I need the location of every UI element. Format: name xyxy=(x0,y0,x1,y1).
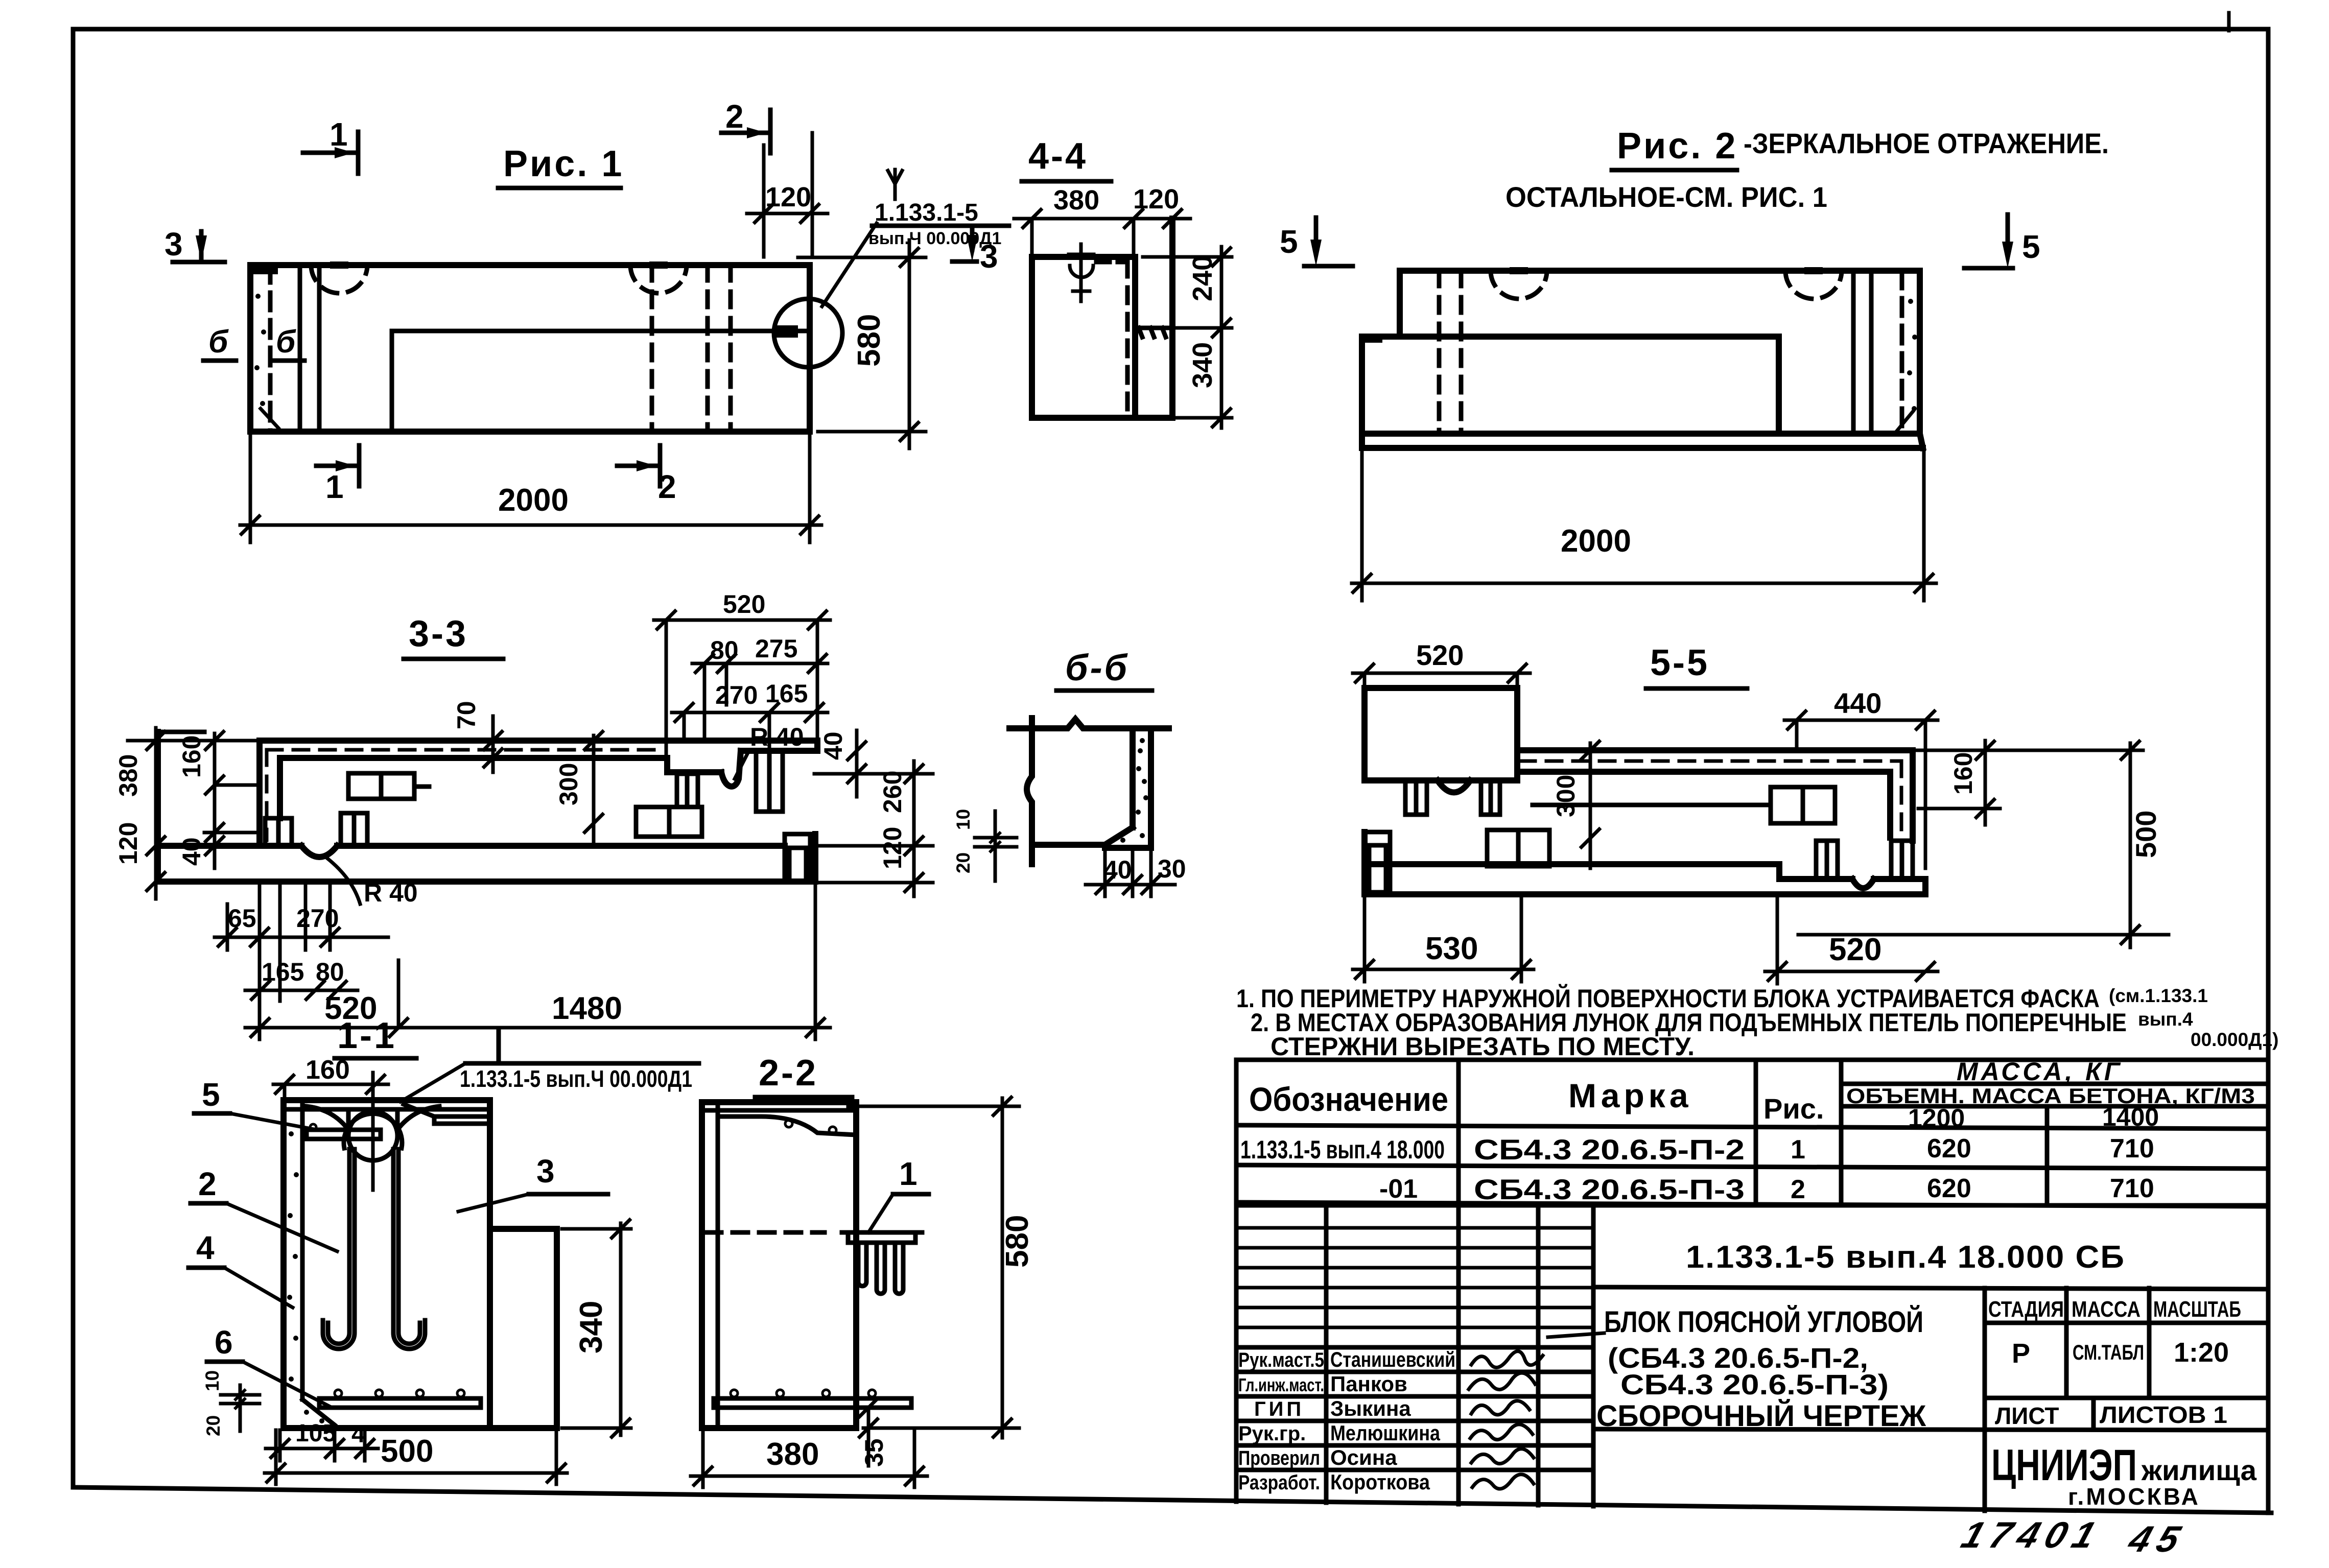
section 3-3 shear key pair left xyxy=(265,818,292,846)
section mark 3 right of Fig.1 label xyxy=(952,226,998,275)
svg-text:1: 1 xyxy=(899,1155,918,1192)
svg-text:МАСШТАБ: МАСШТАБ xyxy=(2153,1297,2241,1322)
Fig.1 detail circle callout xyxy=(774,299,842,367)
section 3-3 bottom slab xyxy=(158,732,815,882)
svg-text:1: 1 xyxy=(330,116,348,153)
section 3-3 dimension 520 bottom xyxy=(245,960,409,1038)
svg-text:120: 120 xyxy=(765,182,811,212)
svg-text:580: 580 xyxy=(852,314,887,367)
svg-text:2: 2 xyxy=(725,98,744,135)
section 5-5 bottom slab xyxy=(1365,832,1925,894)
svg-text:Осина: Осина xyxy=(1330,1445,1397,1469)
svg-text:1.133.1-5 вып.4 18.000: 1.133.1-5 вып.4 18.000 xyxy=(1240,1135,1445,1164)
svg-text:ОБЪЕМН. МАССА БЕТОНА, КГ/М3: ОБЪЕМН. МАССА БЕТОНА, КГ/М3 xyxy=(1846,1084,2255,1108)
section 3-3 dimensions 380 120 left xyxy=(114,728,260,899)
section 4-4 dimensions 380 120 xyxy=(1014,184,1190,257)
Fig.2 right end strip xyxy=(1853,271,1917,434)
section 3-3 dimension 70 xyxy=(452,701,503,772)
svg-text:5-5: 5-5 xyxy=(1650,643,1709,683)
svg-text:340: 340 xyxy=(1187,342,1218,388)
title block lower grid xyxy=(1236,1205,2268,1511)
svg-text:1200: 1200 xyxy=(1908,1104,1965,1132)
section 1-1 dimensions 20 10 left xyxy=(202,1370,260,1436)
section 2-2 outline xyxy=(702,1102,856,1428)
svg-text:СТАДИЯ: СТАДИЯ xyxy=(1988,1297,2064,1322)
svg-text:БЛОК ПОЯСНОЙ УГЛОВОЙ: БЛОК ПОЯСНОЙ УГЛОВОЙ xyxy=(1604,1305,1923,1339)
section 1-1 dimension 160 top xyxy=(273,1055,388,1100)
view Fig.1 title xyxy=(498,144,624,188)
svg-text:160: 160 xyxy=(305,1055,350,1085)
section 1-1 lower right block xyxy=(490,1229,557,1428)
title block organization xyxy=(1991,1441,2257,1510)
svg-text:160: 160 xyxy=(1949,752,1978,795)
svg-text:МАССА: МАССА xyxy=(2072,1297,2140,1322)
svg-text:520: 520 xyxy=(723,590,765,619)
svg-text:ГИП: ГИП xyxy=(1254,1398,1304,1420)
dimension 2000 bottom of Fig.2 xyxy=(1352,448,1936,601)
svg-text:СБ4.3 20.6.5-П-3: СБ4.3 20.6.5-П-3 xyxy=(1474,1173,1745,1205)
svg-text:10: 10 xyxy=(953,809,974,830)
svg-text:300: 300 xyxy=(554,763,583,805)
section 1-1 hairpin bar right xyxy=(393,1149,425,1349)
svg-text:580: 580 xyxy=(1000,1215,1035,1268)
svg-text:ЛИСТОВ 1: ЛИСТОВ 1 xyxy=(2100,1401,2227,1428)
svg-text:2-2: 2-2 xyxy=(759,1053,818,1094)
svg-text:530: 530 xyxy=(1425,931,1478,966)
section 5-5 dimension 160 xyxy=(1916,740,2143,825)
svg-text:00.000Д1): 00.000Д1) xyxy=(2191,1029,2278,1050)
section 5-5 dimension 520 top xyxy=(1353,639,1530,688)
section 1-1 lifting loop xyxy=(307,1073,439,1190)
section 1-1 title xyxy=(335,1015,416,1058)
svg-text:Рис.: Рис. xyxy=(1763,1092,1824,1125)
svg-text:-01: -01 xyxy=(1379,1174,1418,1204)
section 5-5 horizontal key lower xyxy=(1487,830,1549,866)
section 3-3 end key right xyxy=(785,834,810,882)
section 5-5 title xyxy=(1646,643,1747,688)
section 5-5 dimension 530 bottom xyxy=(1353,894,1534,982)
svg-text:5: 5 xyxy=(202,1076,220,1113)
svg-text:ОСТАЛЬНОЕ-СМ. РИС. 1: ОСТАЛЬНОЕ-СМ. РИС. 1 xyxy=(1505,181,1827,213)
svg-text:(см.1.133.1: (см.1.133.1 xyxy=(2109,985,2208,1006)
svg-text:80: 80 xyxy=(316,958,344,986)
svg-text:3: 3 xyxy=(980,238,998,275)
section 5-5 flange slab xyxy=(1517,750,1913,848)
Fig.1 inner recess line xyxy=(392,325,810,432)
svg-text:120: 120 xyxy=(114,822,143,865)
svg-text:2: 2 xyxy=(1791,1175,1805,1204)
handwritten archive number 17401 45 xyxy=(1955,1514,2194,1560)
section 3-3 dimensions 80 275 xyxy=(692,634,828,741)
section 3-3 horizontal key lower xyxy=(636,807,702,837)
section 5-5 dimension 500 xyxy=(1798,740,2169,947)
section 5-5 horizontal key upper xyxy=(1533,787,1835,823)
section 4-4 title xyxy=(1022,136,1111,181)
svg-text:440: 440 xyxy=(1834,687,1881,719)
svg-text:80: 80 xyxy=(710,636,739,664)
svg-text:710: 710 xyxy=(2110,1174,2154,1203)
title block handwritten signatures xyxy=(1469,1333,1604,1489)
detail b-b dimensions 20 10 left xyxy=(953,809,1017,881)
section 1-1 dimension 340 xyxy=(562,1219,631,1438)
svg-text:г.МОСКВА: г.МОСКВА xyxy=(2068,1483,2200,1510)
section 1-1 part callout 4 xyxy=(189,1229,293,1308)
Fig.1 dashed joint lines xyxy=(652,265,731,432)
svg-text:120: 120 xyxy=(878,827,907,869)
section 5-5 shear keys right xyxy=(1816,841,1913,879)
section 5-5 end key left xyxy=(1365,832,1390,892)
section mark 2 above Fig.1 xyxy=(721,98,770,153)
title block name lines xyxy=(1596,1305,1926,1433)
svg-text:620: 620 xyxy=(1927,1134,1971,1163)
svg-text:R 40: R 40 xyxy=(750,723,804,751)
svg-text:270: 270 xyxy=(715,681,758,709)
svg-text:380: 380 xyxy=(114,754,143,797)
view Fig.2 title and remark xyxy=(1505,126,2109,213)
b-b cut letters on Fig.1 xyxy=(203,324,304,361)
svg-text:СБОРОЧНЫЙ ЧЕРТЕЖ: СБОРОЧНЫЙ ЧЕРТЕЖ xyxy=(1596,1399,1926,1433)
section mark 5 right of Fig.2 xyxy=(1964,215,2040,268)
svg-text:1400: 1400 xyxy=(2102,1103,2159,1131)
detail b-b dimensions 40 30 xyxy=(1086,848,1186,896)
section 3-3 dimension 1480 bottom xyxy=(398,882,830,1039)
svg-text:500: 500 xyxy=(2130,811,2162,858)
svg-text:Рис. 2: Рис. 2 xyxy=(1617,126,1737,167)
section 1-1 bottom anchor plate xyxy=(319,1390,481,1408)
svg-text:275: 275 xyxy=(755,634,797,663)
section 3-3 dimensions 160 40 left xyxy=(177,730,260,868)
svg-text:6: 6 xyxy=(215,1324,233,1361)
svg-text:Зыкина: Зыкина xyxy=(1330,1396,1411,1420)
svg-text:Панков: Панков xyxy=(1330,1372,1407,1396)
svg-text:б: б xyxy=(208,324,229,360)
section 2-2 dashed level line xyxy=(706,1230,825,1235)
svg-text:30: 30 xyxy=(1158,854,1186,883)
dimension 580 right of Fig.1 xyxy=(798,240,926,448)
svg-text:500: 500 xyxy=(381,1434,433,1469)
svg-text:Гл.инж.маст.: Гл.инж.маст. xyxy=(1238,1374,1324,1395)
svg-text:1.133.1-5: 1.133.1-5 xyxy=(875,199,978,226)
section 2-2 dimension 35 xyxy=(858,1397,888,1467)
svg-text:3: 3 xyxy=(536,1153,555,1190)
notes text xyxy=(1236,984,2278,1061)
section 2-2 part callout 1 xyxy=(868,1155,929,1232)
section 3-3 dimensions 165 80 bottom xyxy=(245,958,358,1001)
svg-text:65: 65 xyxy=(228,904,256,933)
section 3-3 R40 lower label xyxy=(327,858,418,907)
section 1-1 part callout 5 xyxy=(194,1076,317,1130)
svg-text:б-б: б-б xyxy=(1065,648,1129,688)
svg-text:3-3: 3-3 xyxy=(409,613,468,654)
title block stage mass scale xyxy=(1988,1297,2241,1429)
svg-text:ЛИСТ: ЛИСТ xyxy=(1995,1403,2059,1429)
section 3-3 dimensions 65 270 bottom xyxy=(215,882,388,1039)
Fig.1 lifting pocket dashed arc right xyxy=(630,262,687,293)
svg-text:35: 35 xyxy=(860,1438,888,1467)
svg-text:ЦНИИЭП: ЦНИИЭП xyxy=(1991,1441,2137,1490)
dimension 2000 bottom of Fig.1 xyxy=(240,432,821,542)
svg-text:5: 5 xyxy=(1280,223,1298,260)
title block header texts xyxy=(1249,1057,2255,1132)
svg-text:1.133.1-5 вып.Ч 00.000Д1: 1.133.1-5 вып.Ч 00.000Д1 xyxy=(460,1065,692,1092)
svg-text:20: 20 xyxy=(953,852,974,873)
svg-text:СБ4.3 20.6.5-П-2: СБ4.3 20.6.5-П-2 xyxy=(1474,1133,1745,1166)
svg-text:620: 620 xyxy=(1927,1174,1971,1203)
Fig.1 left end hatched strip xyxy=(254,265,319,432)
svg-text:70: 70 xyxy=(452,701,481,729)
title block grid xyxy=(1236,1060,2268,1206)
svg-text:260: 260 xyxy=(878,771,907,813)
section 1-1 right upper corner detail xyxy=(404,1104,490,1124)
svg-text:40: 40 xyxy=(177,837,206,866)
detail b-b outline xyxy=(1009,718,1169,864)
section 5-5 dimension 300 xyxy=(1551,740,1601,868)
title block row 2 xyxy=(1379,1173,2154,1205)
svg-text:240: 240 xyxy=(1187,255,1218,301)
svg-text:380: 380 xyxy=(1053,185,1099,216)
Fig.1 block outline xyxy=(250,265,810,432)
section 1-1 hairpin bar left xyxy=(323,1149,355,1349)
section 5-5 dimension 440 xyxy=(1784,687,1938,868)
dimension 120 top of Fig.1 xyxy=(747,133,828,257)
section 2-2 dimension 580 xyxy=(848,1096,1035,1438)
section 3-3 flange slab xyxy=(260,741,817,846)
svg-text:2000: 2000 xyxy=(498,483,569,518)
svg-text:Рис. 1: Рис. 1 xyxy=(503,144,624,184)
svg-text:20: 20 xyxy=(203,1415,224,1436)
svg-text:520: 520 xyxy=(1829,932,1881,967)
section 2-2 bottom anchor plate xyxy=(714,1390,911,1408)
svg-text:Станишевский: Станишевский xyxy=(1330,1347,1455,1371)
svg-text:Р: Р xyxy=(2012,1338,2030,1369)
svg-text:1: 1 xyxy=(1791,1135,1805,1165)
svg-text:300: 300 xyxy=(1551,775,1580,817)
section 1-1 concrete dots xyxy=(287,1131,324,1423)
svg-text:520: 520 xyxy=(1416,639,1464,671)
svg-text:4-4: 4-4 xyxy=(1028,136,1088,177)
section 3-3 dimension 520 top xyxy=(654,590,830,772)
section 4-4 outline xyxy=(1032,219,1172,418)
Fig.1 callout label 1.133.1-5 vyp.4 00.000D1 xyxy=(822,170,1009,306)
svg-text:160: 160 xyxy=(177,735,206,778)
svg-text:Мелюшкина: Мелюшкина xyxy=(1330,1421,1441,1445)
section 4-4 lifting loop symbol xyxy=(1069,244,1094,301)
section 2-2 dowel comb detail xyxy=(842,1232,922,1294)
section 3-3 dimension 300 xyxy=(554,730,604,843)
svg-text:Рук.маст.5: Рук.маст.5 xyxy=(1238,1349,1324,1371)
section 2-2 title xyxy=(755,1053,852,1097)
section mark 3 upper left of Fig.1 xyxy=(164,226,225,263)
section 2-2 dimension 380 xyxy=(691,1430,927,1487)
title block row 1 xyxy=(1240,1133,2154,1166)
svg-text:R 40: R 40 xyxy=(364,878,418,907)
svg-text:Обозначение: Обозначение xyxy=(1249,1080,1448,1118)
svg-text:710: 710 xyxy=(2110,1134,2154,1163)
svg-text:2: 2 xyxy=(198,1166,217,1202)
svg-text:Проверил: Проверил xyxy=(1238,1447,1320,1469)
title block signature labels xyxy=(1238,1349,1324,1494)
section 3-3 dimension 40 right xyxy=(819,730,867,797)
section 3-3 title xyxy=(404,613,503,659)
svg-text:Рук.гр.: Рук.гр. xyxy=(1238,1422,1306,1445)
svg-text:380: 380 xyxy=(766,1437,819,1472)
Fig.2 lifting pocket dashed arc right xyxy=(1785,267,1842,299)
section 1-1 callout label xyxy=(401,1031,699,1102)
section 1-1 dimension 500 xyxy=(265,1430,567,1484)
svg-text:340: 340 xyxy=(574,1301,609,1353)
section mark 1 above Fig.1 xyxy=(303,116,358,174)
svg-text:17401: 17401 xyxy=(1957,1514,2108,1556)
section 4-4 dimensions 240 340 xyxy=(1143,247,1232,428)
section 3-3 dimensions 270 165 xyxy=(672,679,828,751)
svg-text:-ЗЕРКАЛЬНОЕ ОТРАЖЕНИЕ.: -ЗЕРКАЛЬНОЕ ОТРАЖЕНИЕ. xyxy=(1744,127,2109,159)
svg-text:Разработ.: Разработ. xyxy=(1238,1471,1320,1494)
section 1-1 part callout 2 xyxy=(191,1166,337,1251)
detail b-b title xyxy=(1056,648,1152,691)
section 3-3 corner block xyxy=(667,741,817,812)
svg-text:5: 5 xyxy=(2022,228,2040,265)
section 5-5 corner block xyxy=(1365,688,1517,815)
section 3-3 dimensions 260 120 right xyxy=(814,761,933,896)
svg-text:165: 165 xyxy=(765,679,808,708)
Fig.2 lifting pocket dashed arc left xyxy=(1491,267,1547,299)
svg-text:Короткова: Короткова xyxy=(1330,1470,1430,1494)
section 3-3 horizontal key upper xyxy=(348,773,429,799)
svg-text:2000: 2000 xyxy=(1561,524,1631,559)
svg-text:СМ.ТАБЛ: СМ.ТАБЛ xyxy=(2073,1340,2144,1364)
svg-text:40: 40 xyxy=(819,731,848,760)
section 1-1 part callout 3 xyxy=(458,1153,608,1211)
svg-text:3: 3 xyxy=(164,226,183,263)
section 1-1 part callout 6 xyxy=(207,1324,331,1407)
svg-text:СБ4.3 20.6.5-П-3): СБ4.3 20.6.5-П-3) xyxy=(1620,1368,1889,1400)
section mark 2 below Fig.1 xyxy=(617,445,676,505)
svg-text:жилища: жилища xyxy=(2141,1454,2257,1486)
section mark 5 right of 4-4 xyxy=(1280,218,1353,266)
svg-text:СТЕРЖНИ ВЫРЕЗАТЬ ПО МЕСТУ.: СТЕРЖНИ ВЫРЕЗАТЬ ПО МЕСТУ. xyxy=(1271,1032,1695,1061)
svg-text:б: б xyxy=(276,324,296,360)
svg-text:1480: 1480 xyxy=(552,991,622,1026)
svg-text:1: 1 xyxy=(325,468,344,505)
title block signature names xyxy=(1330,1347,1455,1494)
svg-text:1:20: 1:20 xyxy=(2174,1337,2229,1368)
svg-text:270: 270 xyxy=(296,904,339,933)
svg-text:10: 10 xyxy=(202,1370,223,1391)
section 1-1 dimensions 105 4 xyxy=(266,1420,378,1461)
svg-text:1-1: 1-1 xyxy=(337,1015,396,1056)
svg-text:4: 4 xyxy=(196,1229,215,1266)
svg-text:105: 105 xyxy=(295,1420,336,1447)
svg-text:вып.4: вып.4 xyxy=(2138,1009,2193,1030)
section mark 1 below Fig.1 xyxy=(316,445,359,505)
svg-text:Марка: Марка xyxy=(1568,1077,1692,1114)
Fig.1 lifting pocket dashed arc left xyxy=(311,262,367,293)
Fig.2 dashed joint lines xyxy=(1439,271,1461,434)
svg-text:1.133.1-5 вып.4 18.000 СБ: 1.133.1-5 вып.4 18.000 СБ xyxy=(1686,1240,2125,1275)
section 1-1 outline xyxy=(284,1100,490,1428)
svg-text:МАССА, КГ: МАССА, КГ xyxy=(1957,1057,2123,1086)
Fig.2 block outline xyxy=(1362,271,1923,448)
section 3-3 R40 upper label xyxy=(735,723,804,779)
section 3-3 shear key pair mid xyxy=(341,813,367,846)
section 5-5 dimension 520 bottom xyxy=(1765,894,1938,984)
